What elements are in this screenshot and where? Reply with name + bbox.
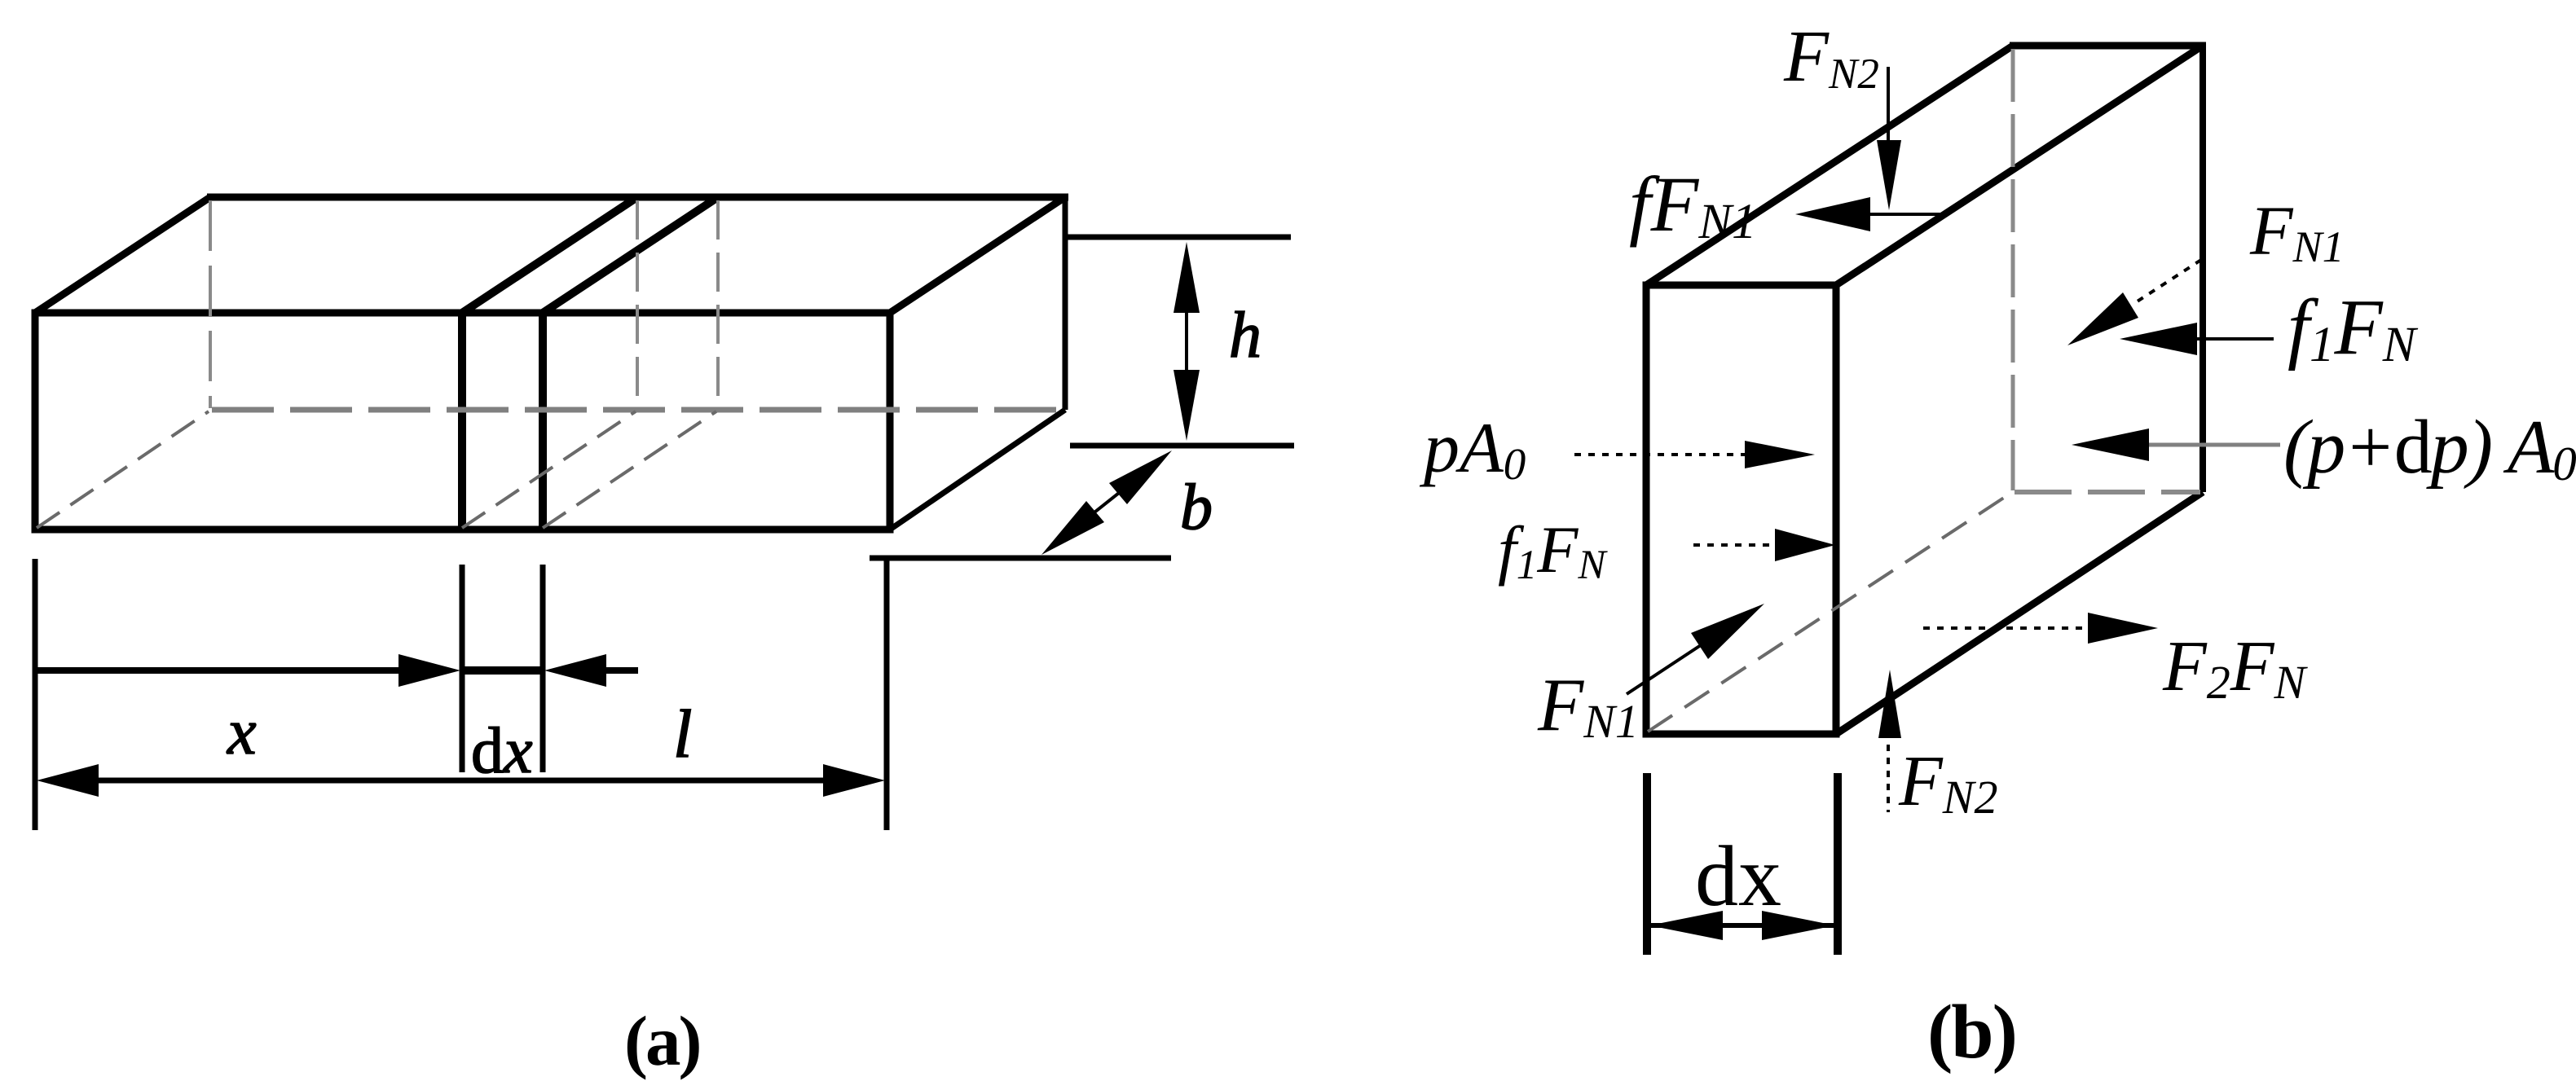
hidden bottom-left edge <box>37 411 209 528</box>
label dx (b) <box>1695 828 1781 924</box>
element top back edge <box>2010 42 2206 50</box>
beam top back edge <box>207 194 1068 201</box>
force arrow f1FN left (dotted) <box>1693 529 1835 561</box>
extension line slice left <box>460 565 465 772</box>
extension line left <box>33 559 38 830</box>
dimension b arrow <box>1041 451 1172 555</box>
element top-right edge <box>1836 46 2203 285</box>
extension line slice right <box>540 565 546 772</box>
dimension x line with arrow <box>35 654 460 687</box>
svg-text:x: x <box>227 697 257 768</box>
label FN2 bottom <box>1898 742 1997 824</box>
force arrow FN1 right (dotted diagonal) <box>2067 260 2201 345</box>
force arrow F2FN (dotted) <box>1923 613 2158 644</box>
hidden bottom-left edge (b) <box>1648 493 2011 732</box>
svg-text:b: b <box>1180 472 1213 543</box>
svg-text:(p+dp) A0: (p+dp) A0 <box>2283 405 2576 490</box>
dimension dx (b) double arrow <box>1649 911 1835 940</box>
label l <box>673 697 692 772</box>
slice front edge left <box>458 313 466 530</box>
force arrow FN1 lower-left (diagonal) <box>1627 604 1764 694</box>
slice front edge right <box>539 313 547 530</box>
dimension h bottom line <box>1070 443 1294 449</box>
label dx <box>471 715 533 787</box>
dimension h top line <box>1066 235 1291 240</box>
svg-text:dx: dx <box>471 715 533 787</box>
hidden back-left vertical edge <box>209 200 212 408</box>
svg-text:(a): (a) <box>624 1001 699 1080</box>
element back-right vertical edge <box>2200 42 2206 492</box>
dimension b baseline <box>870 556 1171 561</box>
dimension dx thick segment <box>462 666 543 675</box>
dimension l line with arrows <box>37 764 885 797</box>
extension line right <box>884 556 890 830</box>
force arrow (p+dp)A0 <box>2072 429 2280 461</box>
beam bottom-right edge <box>890 410 1065 530</box>
label f1FN left <box>1498 512 1608 588</box>
label FN1 lower-left <box>1537 663 1639 748</box>
beam front face <box>35 313 890 530</box>
label pA0 <box>1419 409 1526 489</box>
hidden slice back edge left <box>636 200 639 408</box>
force arrow fFN1 (top face) <box>1795 197 1946 231</box>
slice top edge right <box>543 197 718 313</box>
hidden bottom back edge <box>212 407 1063 413</box>
hidden slice bottom edge left <box>462 411 636 528</box>
hidden slice back edge right <box>716 200 720 408</box>
dimension dx (b) tick left <box>1643 773 1651 955</box>
label (p+dp)A0 <box>2283 405 2576 490</box>
beam top-left edge <box>35 197 210 313</box>
svg-text:dx: dx <box>1695 828 1781 924</box>
element front face <box>1646 285 1836 734</box>
label F2FN <box>2162 627 2309 709</box>
element bottom-right edge <box>1836 492 2203 734</box>
label b <box>1180 472 1213 543</box>
force arrow FN2 top <box>1877 67 1901 210</box>
dimension dx (b) tick right <box>1834 773 1842 955</box>
force arrow f1FN right <box>2120 323 2274 355</box>
hidden slice bottom edge right <box>543 411 716 528</box>
label h <box>1229 300 1262 371</box>
svg-text:h: h <box>1229 300 1262 371</box>
label f1FN right <box>2288 283 2419 372</box>
beam top-right edge <box>890 197 1065 313</box>
slice top edge left <box>462 197 637 313</box>
beam back-right vertical edge <box>1063 195 1068 410</box>
force arrow pA0 (dotted) <box>1574 441 1815 468</box>
hidden back bottom edge (b) <box>2015 490 2200 494</box>
caption (b) <box>1927 990 2016 1075</box>
dimension h arrow <box>1174 242 1200 441</box>
label fFN1 <box>1629 160 1757 249</box>
svg-text:(b): (b) <box>1927 990 2016 1075</box>
force arrow FN2 bottom (up) <box>1878 670 1901 812</box>
svg-text:l: l <box>673 697 692 772</box>
label FN1 right <box>2249 191 2345 271</box>
hidden back-left vertical edge (b) <box>2011 49 2015 490</box>
label FN2 top <box>1783 16 1879 98</box>
caption (a) <box>624 1001 699 1080</box>
element top-left edge <box>1646 46 2013 285</box>
dimension dx left-pointing arrow with tail <box>544 654 638 687</box>
label x <box>227 697 257 768</box>
